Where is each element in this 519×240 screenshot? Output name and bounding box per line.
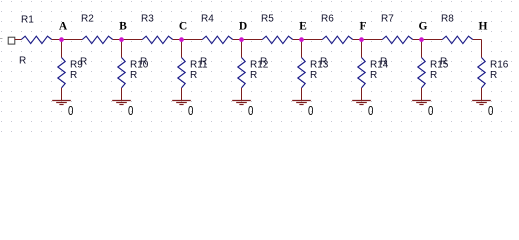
wire: node D down to R12 [241,40,243,58]
svg-text:A: A [59,20,68,32]
node B junction dot [119,37,124,42]
wire: node G down to R15 [421,40,423,58]
wire: R12 to ground [241,88,243,101]
svg-text:E: E [299,20,307,32]
node G junction dot [419,37,424,42]
ground symbol (0) at node E branch [292,100,311,102]
resistor R10 [118,58,125,88]
wire: node F down to R14 [361,40,363,58]
svg-text:H: H [479,20,488,32]
wire: horizontal segment 3 [113,39,143,41]
svg-text:0: 0 [68,103,73,118]
resistor R15 [418,58,425,88]
wire: R15 to ground [421,88,423,101]
resistor R14 [358,58,365,88]
wire: horizontal segment 4 [173,39,203,41]
svg-text:0: 0 [368,103,373,118]
wire: node H down to R16 [481,40,483,58]
wire: node B down to R10 [121,40,123,58]
svg-text:0: 0 [488,103,493,118]
resistor R8 [442,36,472,43]
wire: horizontal segment 7 [353,39,383,41]
svg-text:R6: R6 [321,13,334,24]
svg-text:R1: R1 [21,14,34,25]
resistor R11 [178,58,185,88]
resistor R4 [202,36,232,43]
wire: R11 to ground [181,88,183,101]
wire: horizontal segment 5 [233,39,263,41]
wire: horizontal segment 6 [293,39,323,41]
svg-text:R: R [70,70,77,81]
port terminal (input pin) [8,37,15,44]
svg-text:R7: R7 [381,13,394,24]
svg-text:0: 0 [428,103,433,118]
svg-text:R: R [430,70,437,81]
resistor R3 [142,36,172,43]
wire: R9 to ground [61,88,63,101]
ground symbol (0) at node A branch [52,100,71,102]
resistor R1 [21,36,51,43]
wire: horizontal segment 2 [52,39,83,41]
ground symbol (0) at node G branch [412,100,431,102]
ground symbol (0) at node D branch [232,100,251,102]
ground symbol (0) at node H branch [472,100,491,102]
svg-text:R: R [250,70,257,81]
wire: R10 to ground [121,88,123,101]
svg-text:R5: R5 [261,13,274,24]
svg-text:0: 0 [248,103,253,118]
svg-text:R3: R3 [141,13,154,24]
wire: R13 to ground [301,88,303,101]
wire: horizontal segment 1 [15,39,22,41]
resistor R7 [382,36,412,43]
svg-text:F: F [359,20,366,32]
svg-text:B: B [119,20,127,32]
svg-text:0: 0 [188,103,193,118]
node D junction dot [239,37,244,42]
wire: node E down to R13 [301,40,303,58]
wire: R14 to ground [361,88,363,101]
node A junction dot [59,37,64,42]
ground symbol (0) at node B branch [112,100,131,102]
svg-text:R2: R2 [81,13,94,24]
resistor R16 [478,58,485,88]
svg-text:D: D [239,20,247,32]
svg-text:R: R [190,70,197,81]
wire: node C down to R11 [181,40,183,58]
svg-text:G: G [419,20,428,32]
svg-text:C: C [179,20,187,32]
svg-text:R: R [370,70,377,81]
resistor R12 [238,58,245,88]
svg-text:R: R [130,70,137,81]
svg-text:0: 0 [308,103,313,118]
ground symbol (0) at node C branch [172,100,191,102]
svg-text:R4: R4 [201,13,214,24]
ground symbol (0) at node F branch [352,100,371,102]
wire: horizontal segment 8 [413,39,443,41]
resistor R5 [262,36,292,43]
svg-text:R8: R8 [441,13,454,24]
wire: horizontal segment 9 [473,39,482,41]
resistor R2 [82,36,112,43]
svg-text:R: R [19,56,26,67]
node E junction dot [299,37,304,42]
resistor R13 [298,58,305,88]
wire: R16 to ground [481,88,483,101]
node F junction dot [359,37,364,42]
wire: node A down to R9 [61,40,63,58]
svg-text:0: 0 [128,103,133,118]
resistor R6 [322,36,352,43]
svg-text:R: R [490,70,497,81]
resistor R9 [58,58,65,88]
node C junction dot [179,37,184,42]
svg-text:R: R [310,70,317,81]
